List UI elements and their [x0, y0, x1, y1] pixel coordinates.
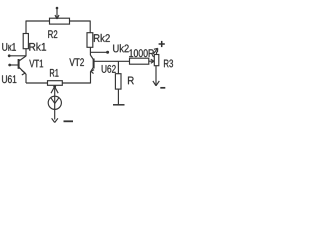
current source I0 — [48, 87, 61, 120]
label VT1 — [29, 60, 43, 68]
resistor Rk1 — [23, 34, 28, 49]
R2 wiper arrow — [55, 7, 59, 19]
node Uk1 wire — [8, 54, 26, 57]
label Rk1 — [29, 43, 46, 51]
label R1 — [50, 69, 59, 77]
potentiometer R2 — [50, 18, 70, 24]
transistor VT1 — [19, 56, 26, 75]
wire left drop to Rk1 — [25, 21, 27, 34]
negative supply arrow (current source) — [52, 118, 73, 122]
negative supply arrow (R3) — [153, 81, 165, 88]
node Uk2 wire — [90, 51, 109, 54]
wire top rail left segment — [26, 20, 50, 22]
wire collector VT2 — [89, 47, 91, 55]
wire emitter VT2 — [90, 72, 92, 84]
resistor 1000R — [130, 58, 149, 64]
wire right drop to Rk2 — [89, 21, 91, 33]
node U61 base wire — [8, 64, 18, 67]
label R — [128, 77, 134, 85]
label Uk2 — [113, 44, 129, 52]
wiper arrow into R3 — [149, 59, 154, 63]
label U62 — [102, 65, 116, 73]
label 1000R — [129, 49, 154, 57]
label Uk1 — [2, 43, 16, 51]
wire top rail right segment — [70, 20, 91, 22]
wire R3 bottom lead — [155, 66, 157, 85]
wire bottom rail left segment — [26, 82, 48, 84]
wire emitter VT1 — [25, 74, 27, 83]
label R3 — [164, 60, 173, 68]
potentiometer R3 — [154, 55, 159, 66]
current source junction dot — [53, 85, 56, 88]
wire drop to resistor R — [117, 61, 119, 73]
resistor Rk2 — [87, 33, 93, 48]
resistor R — [115, 74, 121, 89]
label VT2 — [69, 58, 84, 66]
wire base VT2 to bias network — [94, 60, 129, 62]
resistor R1 — [48, 81, 63, 86]
label R2 — [48, 30, 57, 38]
label plus supply — [159, 41, 165, 47]
wire R3 top lead — [156, 52, 158, 55]
transistor VT2 — [90, 55, 94, 74]
wire R to ground — [117, 89, 119, 104]
ground — [113, 104, 125, 106]
positive supply arrow — [153, 48, 158, 54]
wire collector VT1 — [25, 49, 27, 57]
label U61 — [2, 75, 16, 83]
wire bottom rail right segment — [62, 82, 90, 84]
label Rk2 — [94, 34, 110, 42]
